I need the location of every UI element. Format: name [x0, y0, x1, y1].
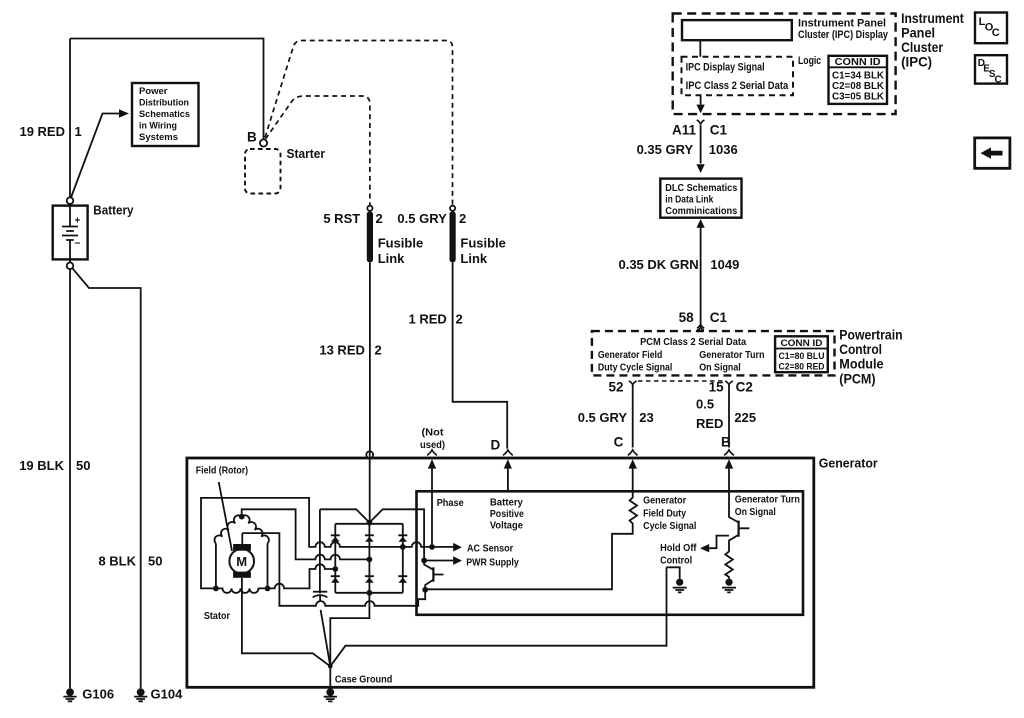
svg-text:PWR Supply: PWR Supply — [466, 558, 519, 569]
svg-text:CONN ID: CONN ID — [781, 338, 823, 349]
svg-text:B: B — [721, 434, 731, 449]
svg-text:C: C — [614, 434, 624, 449]
svg-text:C2: C2 — [736, 380, 753, 395]
svg-text:AC Sensor: AC Sensor — [467, 544, 513, 555]
svg-text:1049: 1049 — [710, 257, 739, 272]
svg-text:(IPC): (IPC) — [901, 55, 932, 70]
svg-text:C2=80 RED: C2=80 RED — [779, 361, 825, 372]
svg-text:C3=05 BLK: C3=05 BLK — [832, 91, 885, 102]
svg-text:0.5 GRY: 0.5 GRY — [578, 410, 628, 425]
svg-text:0.35 DK GRN: 0.35 DK GRN — [618, 257, 698, 272]
svg-text:IPC Class 2 Serial Data: IPC Class 2 Serial Data — [686, 80, 789, 92]
svg-text:in Data Link: in Data Link — [665, 195, 713, 206]
svg-text:B: B — [247, 130, 257, 145]
svg-text:Powertrain: Powertrain — [839, 327, 902, 342]
svg-text:D: D — [491, 438, 501, 453]
svg-text:A11: A11 — [672, 123, 697, 138]
svg-text:13 RED: 13 RED — [319, 343, 365, 358]
svg-text:Cluster: Cluster — [901, 40, 944, 55]
svg-text:CONN ID: CONN ID — [835, 57, 881, 68]
svg-text:Power: Power — [139, 86, 168, 97]
svg-text:Positive: Positive — [490, 509, 524, 520]
svg-text:19 RED: 19 RED — [19, 124, 65, 139]
svg-text:C2=08 BLK: C2=08 BLK — [832, 81, 885, 92]
svg-text:Phase: Phase — [437, 498, 464, 509]
svg-text:C1=34 BLK: C1=34 BLK — [832, 71, 885, 82]
svg-text:+: + — [75, 216, 81, 227]
svg-text:8 BLK: 8 BLK — [98, 554, 136, 569]
svg-text:M: M — [236, 554, 247, 569]
svg-text:DLC Schematics: DLC Schematics — [665, 183, 737, 194]
svg-text:0.5 GRY: 0.5 GRY — [397, 211, 447, 226]
svg-text:Battery: Battery — [490, 498, 523, 509]
svg-text:(PCM): (PCM) — [839, 371, 875, 386]
svg-text:Generator Turn: Generator Turn — [699, 350, 764, 361]
svg-text:Field (Rotor): Field (Rotor) — [196, 466, 248, 477]
svg-text:50: 50 — [148, 554, 162, 569]
svg-text:Panel: Panel — [901, 25, 935, 40]
svg-text:−: − — [75, 239, 81, 250]
svg-text:On Signal: On Signal — [699, 363, 741, 374]
svg-text:Comminications: Comminications — [665, 206, 737, 217]
svg-text:G104: G104 — [151, 687, 184, 702]
svg-text:(Not: (Not — [422, 428, 445, 439]
svg-text:C: C — [992, 27, 1000, 39]
svg-text:2: 2 — [459, 211, 466, 226]
svg-text:Starter: Starter — [287, 146, 326, 161]
svg-text:0.35 GRY: 0.35 GRY — [637, 142, 694, 157]
svg-text:C1: C1 — [710, 310, 728, 325]
svg-text:Logic: Logic — [798, 55, 821, 67]
svg-text:in Wiring: in Wiring — [139, 121, 177, 132]
svg-text:Module: Module — [839, 357, 884, 372]
svg-text:Generator: Generator — [643, 496, 686, 507]
svg-text:0.5: 0.5 — [696, 397, 714, 412]
svg-text:Field Duty: Field Duty — [643, 508, 686, 519]
svg-text:C1: C1 — [710, 123, 728, 138]
svg-text:Fusible: Fusible — [460, 235, 506, 250]
svg-text:Control: Control — [839, 342, 882, 357]
svg-text:Instrument Panel: Instrument Panel — [798, 18, 886, 30]
svg-text:50: 50 — [76, 458, 90, 473]
svg-text:IPC Display Signal: IPC Display Signal — [686, 62, 765, 74]
svg-text:Cycle Signal: Cycle Signal — [643, 521, 696, 532]
svg-text:Generator Field: Generator Field — [598, 350, 662, 361]
svg-text:Cluster (IPC) Display: Cluster (IPC) Display — [798, 29, 889, 41]
svg-text:Control: Control — [660, 556, 692, 567]
svg-text:G106: G106 — [82, 687, 114, 702]
svg-text:Distribution: Distribution — [139, 98, 189, 109]
svg-text:Duty Cycle Signal: Duty Cycle Signal — [598, 363, 673, 374]
svg-text:1036: 1036 — [709, 142, 738, 157]
svg-text:C: C — [995, 74, 1002, 85]
svg-text:52: 52 — [608, 380, 623, 395]
svg-text:Generator Turn: Generator Turn — [735, 495, 800, 506]
svg-text:Link: Link — [460, 251, 487, 266]
svg-text:15: 15 — [709, 380, 725, 395]
svg-text:Systems: Systems — [139, 132, 178, 143]
svg-text:58: 58 — [679, 310, 695, 325]
svg-text:RED: RED — [696, 416, 723, 431]
svg-text:Schematics: Schematics — [139, 109, 190, 120]
svg-text:used): used) — [420, 440, 445, 451]
svg-text:5 RST: 5 RST — [323, 211, 360, 226]
svg-text:2: 2 — [456, 311, 463, 326]
svg-text:2: 2 — [376, 211, 383, 226]
svg-text:Voltage: Voltage — [490, 521, 523, 532]
svg-text:Generator: Generator — [819, 456, 878, 471]
svg-text:225: 225 — [734, 410, 756, 425]
svg-text:C1=80 BLU: C1=80 BLU — [779, 351, 825, 362]
svg-text:Hold Off: Hold Off — [660, 543, 697, 554]
svg-text:Battery: Battery — [93, 203, 134, 218]
svg-text:1: 1 — [75, 124, 82, 139]
svg-text:Case Ground: Case Ground — [335, 675, 392, 686]
svg-text:PCM Class 2 Serial Data: PCM Class 2 Serial Data — [640, 337, 746, 348]
svg-text:Instrument: Instrument — [901, 11, 964, 26]
svg-text:19 BLK: 19 BLK — [19, 458, 64, 473]
svg-text:2: 2 — [375, 343, 382, 358]
svg-text:Link: Link — [378, 251, 405, 266]
svg-text:23: 23 — [639, 410, 653, 425]
svg-text:Fusible: Fusible — [378, 235, 424, 250]
svg-text:Stator: Stator — [204, 611, 230, 622]
svg-text:1 RED: 1 RED — [409, 311, 447, 326]
svg-text:On Signal: On Signal — [735, 507, 776, 518]
